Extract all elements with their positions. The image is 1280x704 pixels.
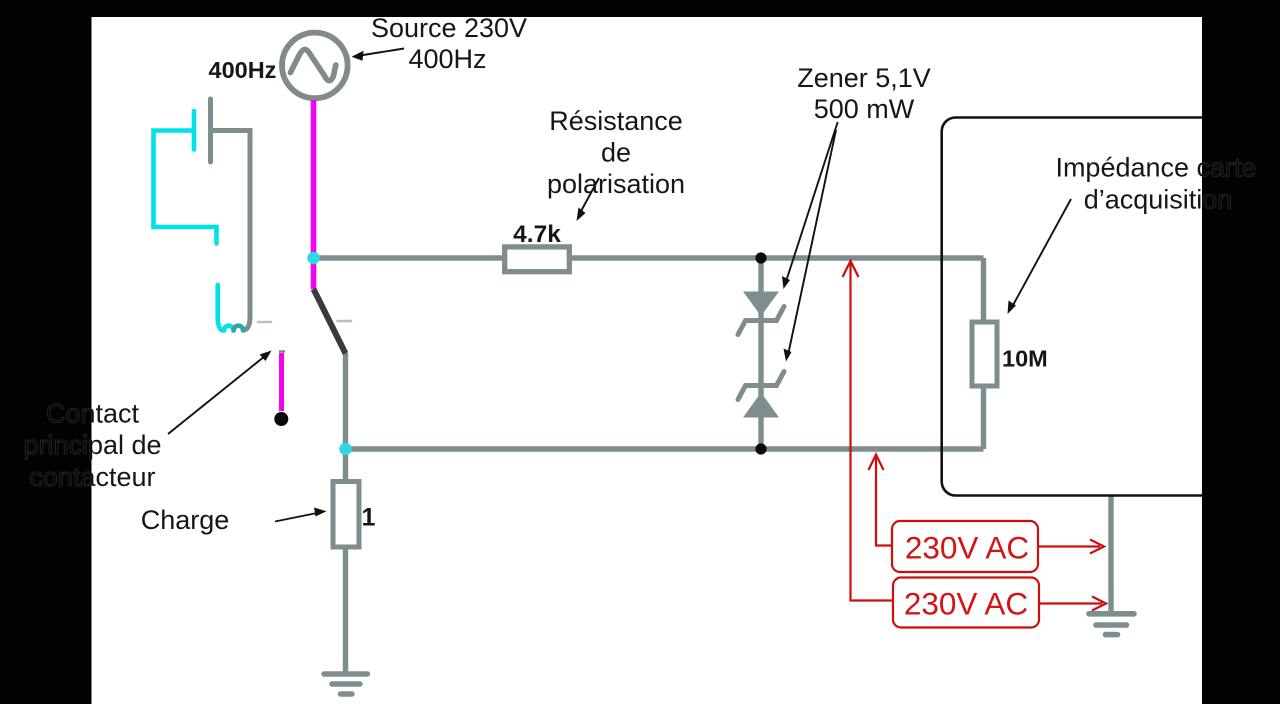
svg-text:Zener 5,1V: Zener 5,1V bbox=[797, 63, 931, 93]
svg-text:polarisation: polarisation bbox=[547, 169, 685, 199]
svg-text:230V AC: 230V AC bbox=[905, 530, 1029, 566]
svg-text:500 mW: 500 mW bbox=[814, 94, 915, 124]
svg-text:Charge: Charge bbox=[141, 505, 230, 535]
svg-text:Source 230V: Source 230V bbox=[371, 13, 527, 43]
svg-text:4.7k: 4.7k bbox=[513, 221, 561, 248]
svg-text:Résistance: Résistance bbox=[549, 106, 683, 136]
svg-text:1: 1 bbox=[362, 504, 376, 532]
svg-text:400Hz: 400Hz bbox=[408, 44, 486, 74]
svg-text:230V AC: 230V AC bbox=[904, 586, 1028, 622]
svg-text:10M: 10M bbox=[1002, 346, 1048, 372]
svg-text:400Hz: 400Hz bbox=[209, 57, 277, 83]
svg-text:de: de bbox=[601, 138, 631, 168]
